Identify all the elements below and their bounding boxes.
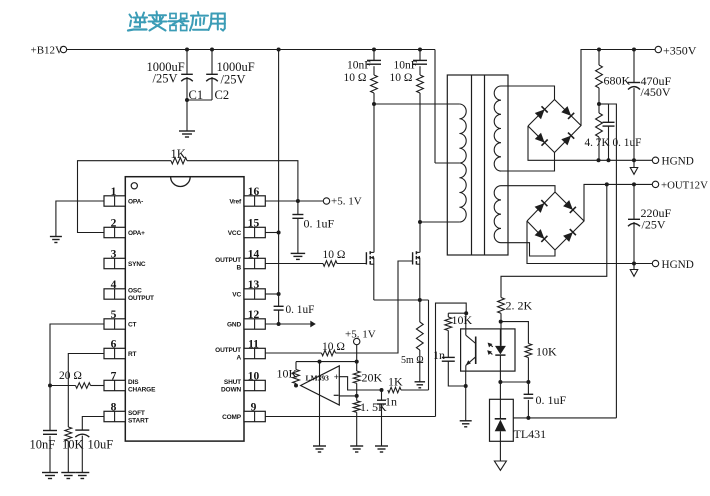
pin 3 SYNC	[104, 249, 146, 269]
svg-text:9: 9	[251, 402, 257, 414]
label 10K timing	[62, 438, 84, 452]
svg-text:10nF: 10nF	[394, 60, 418, 72]
pin 5 CT	[104, 309, 137, 329]
pin 12 GND	[227, 309, 265, 329]
capacitor 470uF/450V	[628, 50, 672, 161]
wire HV plus to rail	[581, 50, 655, 126]
ground Vref cap	[291, 253, 306, 259]
wire pin6 RT	[68, 354, 104, 428]
resistor R 10ohm snubber2	[390, 72, 424, 93]
wire VC cap to pin12	[278, 310, 280, 324]
wire primary bottom lead	[420, 221, 459, 223]
arrow HGND2 down	[630, 270, 638, 277]
wire 680K stem	[598, 50, 600, 66]
wire collector link	[436, 303, 467, 416]
svg-text:SOFT: SOFT	[128, 410, 145, 417]
svg-text:4. 7K: 4. 7K	[585, 137, 611, 149]
pin 2 OPA+	[104, 218, 145, 238]
wire LM393 supply drop	[319, 362, 321, 446]
svg-text:10K: 10K	[277, 367, 298, 381]
resistor R 10K opto filter	[445, 313, 473, 331]
pin 15 VCC	[228, 218, 266, 238]
pin 11 OUTPUT/A	[215, 339, 265, 362]
svg-text:1n: 1n	[385, 395, 397, 409]
junction Q2 source shunt	[418, 298, 422, 302]
wire LV plus to rail	[584, 184, 652, 221]
resistor R 4.7K	[585, 104, 611, 160]
wire 1.5K to gnd	[356, 412, 358, 446]
capacitor C2 1000uF/25V	[206, 60, 255, 102]
optocoupler U3	[461, 329, 515, 371]
svg-text:10: 10	[248, 371, 260, 383]
junction primary top tap	[372, 102, 376, 106]
wire CT-20ohm	[50, 385, 76, 387]
svg-text:HGND: HGND	[662, 259, 694, 271]
ground 10uF	[75, 473, 89, 479]
junction 680K top	[597, 48, 601, 52]
wire HV AC2	[501, 153, 555, 172]
wire plus input	[339, 377, 381, 390]
capacitor 10uF soft-start	[75, 430, 89, 437]
transistor Q2 MOSFET	[413, 251, 420, 264]
svg-text:20K: 20K	[362, 371, 383, 385]
wire pin15	[265, 232, 278, 234]
svg-text:15: 15	[248, 218, 260, 230]
svg-text:10K: 10K	[452, 313, 473, 327]
wire +B12V rail	[67, 49, 435, 51]
wire 1n to emitter node	[448, 361, 465, 386]
svg-text:1K: 1K	[171, 147, 186, 161]
junction 0.1uF bottom	[607, 158, 611, 162]
wire pin11 to 10ohm	[265, 352, 321, 354]
terminal +B12V	[31, 45, 67, 57]
wire 2.2K to LED	[500, 313, 502, 346]
junction emitter node	[464, 384, 468, 388]
capacitor 0.1uF VC-GND	[274, 304, 315, 316]
junction pullup-output	[294, 384, 298, 388]
wire snubber1 mid	[373, 66, 375, 75]
svg-text:11: 11	[248, 339, 259, 351]
arrow HGND down	[630, 168, 638, 175]
svg-text:/25V: /25V	[153, 72, 178, 86]
label 10nF	[30, 438, 56, 452]
resistor R 10K timing	[65, 427, 72, 441]
junction Vref node	[296, 199, 300, 203]
svg-text:OUTPUT: OUTPUT	[215, 257, 241, 264]
svg-text:OSC: OSC	[128, 287, 142, 294]
svg-text:/25V: /25V	[642, 218, 666, 232]
junction HV divider	[597, 102, 601, 106]
capacitor 1n opto filter	[433, 348, 455, 362]
wire HGND2 arrow stem	[633, 264, 635, 270]
pin 14 OUTPUT/B	[215, 249, 265, 272]
svg-text:7: 7	[111, 371, 117, 383]
svg-text:6: 6	[111, 339, 117, 351]
wire 10ohm to Q2 gate	[336, 261, 413, 353]
wire TL431 ref line	[513, 417, 616, 419]
svg-text:4: 4	[111, 279, 117, 291]
svg-text:0. 1uF: 0. 1uF	[286, 304, 315, 316]
svg-text:DOWN: DOWN	[221, 387, 241, 394]
IC U1 SG3525 body	[125, 177, 244, 441]
title text 逆变器应用 (inverter application)	[128, 12, 225, 31]
wire LV AC1	[501, 186, 555, 192]
wire source sense line	[374, 299, 429, 301]
op-amp U2 LM393	[301, 366, 340, 405]
wire pin5 CT	[50, 324, 104, 386]
wire HV minus to HGND	[528, 126, 652, 160]
wire opto collector up	[465, 313, 467, 329]
wire pin8 soft-start	[82, 417, 104, 431]
pin 16 Vref	[229, 186, 265, 206]
wire Q1 source down	[373, 265, 375, 301]
wire 10K to LED cathode	[527, 358, 529, 383]
pin 13 VC	[232, 279, 265, 299]
junction C1 gnd stem	[185, 98, 189, 102]
svg-text:CT: CT	[128, 322, 137, 329]
svg-text:LM393: LM393	[306, 374, 330, 383]
resistor R 20K divider	[353, 371, 382, 385]
ground LM393 supply	[313, 446, 326, 452]
wire snubber2 top	[419, 50, 421, 61]
wire HGND arrow stem	[633, 160, 635, 167]
resistor R 5mohm shunt	[401, 300, 424, 382]
svg-text:DIS: DIS	[128, 379, 139, 386]
wire pin14 to 10ohm	[265, 263, 323, 265]
arrow TL431 anode down	[494, 461, 506, 470]
resistor R 20ohm	[59, 370, 91, 388]
resistor R 1.5K divider	[353, 400, 387, 414]
pin 7 DIS/CHARGE	[104, 371, 156, 394]
svg-text:0. 1uF: 0. 1uF	[536, 393, 567, 407]
pin 1 OPA-	[104, 186, 143, 206]
svg-text:A: A	[236, 355, 241, 362]
junction collector node	[464, 311, 468, 315]
wire pin13	[265, 293, 278, 295]
capacitor 10nF timing	[43, 431, 57, 435]
wire LED cathode node	[499, 371, 501, 382]
wire HV sense to TL431 ref	[609, 104, 617, 418]
ground shunt	[415, 382, 426, 388]
svg-text:10 Ω: 10 Ω	[323, 249, 346, 261]
junction 220uF top	[632, 182, 636, 186]
pin 10 SHUT/DOWN	[221, 371, 265, 394]
resistor R 2.2K	[498, 298, 533, 314]
pin 4 OSC/OUTPUT	[104, 279, 154, 302]
wire 1K to Vref	[187, 161, 298, 201]
wire LV AC2	[501, 243, 555, 256]
terminal +5.1V Vref	[323, 196, 361, 208]
svg-text:VCC: VCC	[228, 230, 242, 237]
junction rail-snubber2	[418, 48, 422, 52]
ground divider	[350, 446, 363, 452]
wire Vref cap drop	[297, 201, 299, 215]
wire pin12 GND net	[265, 323, 311, 325]
capacitor 0.1uF HV divider	[603, 104, 642, 160]
capacitor 0.1uF TL431	[524, 382, 567, 418]
wire LED parallel link	[501, 322, 529, 344]
wire to ground C1C2	[186, 100, 188, 131]
junction rail-C1	[185, 48, 189, 52]
svg-text:OPA-: OPA-	[128, 199, 143, 206]
svg-text:C2: C2	[215, 88, 230, 102]
svg-text:5: 5	[111, 309, 117, 321]
wire LV minus to HGND2	[527, 221, 652, 264]
junction CT node	[48, 384, 52, 388]
svg-text:/450V: /450V	[641, 85, 671, 99]
transistor Q1 MOSFET	[366, 251, 373, 264]
svg-text:OUTPUT: OUTPUT	[128, 295, 154, 302]
svg-text:8: 8	[111, 402, 117, 414]
bridge rectifier D1-D4 (HV)	[528, 100, 581, 153]
svg-text:GND: GND	[227, 322, 241, 329]
capacitor 10nF snubber2	[394, 60, 428, 72]
svg-text:0. 1uF: 0. 1uF	[304, 217, 335, 231]
resistor R 1K sense	[388, 375, 403, 393]
junction ref-cap	[526, 416, 530, 420]
junction LED cathode	[498, 380, 502, 384]
resistor R 10K pullup	[277, 362, 300, 386]
wire Vplus branch	[296, 361, 357, 363]
junction LV plus feed	[605, 182, 609, 186]
wire snubber1 top	[373, 50, 375, 61]
wire 10nF to gnd	[49, 436, 51, 473]
wire 1K to sense drop	[401, 389, 429, 391]
wire CT cap drop	[49, 386, 51, 431]
svg-text:1K: 1K	[388, 375, 403, 389]
transformer secondary LV winding	[494, 186, 501, 243]
ground 1n comp	[375, 446, 388, 452]
svg-text:10 Ω: 10 Ω	[322, 341, 345, 353]
svg-text:CHARGE: CHARGE	[128, 387, 156, 394]
junction rail-VCC	[277, 48, 281, 52]
wire opto emitter down	[465, 371, 467, 421]
resistor R 680K	[596, 65, 631, 88]
capacitor 0.1uF Vref	[292, 215, 334, 231]
ground RT 10K	[61, 473, 75, 479]
pin 6 RT	[104, 339, 137, 359]
svg-text:+5. 1V: +5. 1V	[331, 196, 362, 208]
transformer primary winding	[459, 104, 466, 222]
svg-text:+B12V: +B12V	[31, 45, 64, 57]
junction 1n-1K node	[380, 388, 384, 392]
junction pin15 VCC	[277, 231, 281, 235]
svg-text:10 Ω: 10 Ω	[344, 72, 367, 84]
capacitor C1 1000uF/25V	[147, 60, 204, 102]
svg-text:COMP: COMP	[222, 414, 242, 421]
terminal HGND bottom	[652, 259, 694, 271]
pin 9 COMP	[222, 402, 265, 422]
svg-text:10 Ω: 10 Ω	[390, 72, 413, 84]
wire snubber1 to drain Q1	[373, 93, 375, 252]
wire 10uF to gnd	[81, 436, 83, 473]
wire cathode link	[500, 381, 528, 383]
wire pin2 feedback	[78, 161, 172, 233]
bridge rectifier D5-D8 (LV)	[527, 192, 584, 250]
wire collector to 10K filter	[448, 312, 466, 314]
wire minus input	[339, 395, 356, 397]
junction 0.1uF top	[526, 380, 530, 384]
svg-text:RT: RT	[128, 351, 137, 358]
svg-text:1n: 1n	[433, 348, 445, 362]
svg-text:3: 3	[111, 249, 117, 261]
svg-text:680K: 680K	[604, 74, 631, 88]
ground 10nF	[42, 473, 58, 479]
wire Vref cap gnd	[297, 218, 299, 253]
svg-text:Vref: Vref	[229, 199, 242, 206]
junction rail-C2	[210, 48, 214, 52]
wire pin1 to ground	[56, 201, 104, 237]
svg-text:10nF: 10nF	[30, 438, 56, 452]
wire 10K to 1n	[447, 331, 449, 358]
terminal +350V	[655, 44, 697, 58]
svg-text:+: +	[334, 372, 339, 382]
wire pin9 COMP line	[265, 416, 435, 418]
wire HV AC1	[501, 86, 555, 100]
resistor R 10K opto parallel	[525, 344, 557, 359]
label 10uF	[88, 438, 114, 452]
wire 5.1V stem	[356, 345, 358, 371]
wire C2 bottom	[211, 77, 213, 100]
transformer T1 core/box	[447, 75, 508, 255]
wire primary top lead	[374, 103, 459, 105]
wire 20K-1.5K	[356, 383, 358, 401]
wire 10ohm to Q1 gate	[337, 263, 366, 265]
junction rail-snubber1	[372, 48, 376, 52]
resistor R 1K feedback	[171, 147, 188, 164]
wire 20ohm-pin7	[91, 385, 105, 387]
wire 12V to 2.2K	[501, 184, 607, 297]
svg-text:14: 14	[248, 249, 260, 261]
svg-text:5m Ω: 5m Ω	[401, 355, 424, 366]
ground pin1	[50, 237, 62, 243]
terminal +5.1V aux	[345, 329, 376, 345]
svg-text:SYNC: SYNC	[128, 261, 146, 268]
junction 4.7K bottom	[597, 158, 601, 162]
svg-text:HGND: HGND	[662, 156, 694, 168]
svg-text:OPA+: OPA+	[128, 230, 145, 237]
wire pin16 Vref	[265, 200, 323, 202]
svg-text:10K: 10K	[62, 438, 84, 452]
svg-text:OUTPUT: OUTPUT	[215, 347, 241, 354]
resistor R 10ohm gate A	[322, 341, 345, 356]
svg-text:10K: 10K	[536, 345, 557, 359]
wire C1 top	[186, 50, 188, 75]
transformer secondary HV winding	[494, 86, 501, 171]
junction LED-10K link	[499, 320, 503, 324]
junction 470uF top	[632, 48, 636, 52]
arrow GND off-page	[310, 321, 316, 328]
capacitor 220uF/25V	[628, 184, 672, 263]
svg-text:START: START	[128, 418, 149, 425]
svg-text:B: B	[236, 265, 241, 272]
wire divider to cap	[599, 103, 609, 105]
svg-text:2: 2	[111, 218, 117, 230]
capacitor 1n comp	[377, 390, 397, 446]
wire 10K to gnd	[67, 441, 69, 473]
wire +B12V drop to center tap	[434, 50, 436, 164]
wire C1 bottom	[186, 77, 188, 100]
svg-text:2. 2K: 2. 2K	[506, 299, 533, 313]
wire sense drop to 1K	[428, 300, 430, 390]
wire primary center tap	[435, 162, 459, 164]
svg-text:10uF: 10uF	[88, 438, 114, 452]
svg-text:VC: VC	[232, 292, 241, 299]
wire C2 top	[211, 50, 213, 75]
svg-text:SHUT: SHUT	[224, 379, 241, 386]
svg-text:10nF: 10nF	[347, 60, 371, 72]
svg-text:12: 12	[248, 309, 260, 321]
svg-text:+OUT12V: +OUT12V	[661, 180, 708, 192]
svg-text:+350V: +350V	[663, 44, 697, 58]
junction Vplus branch	[355, 360, 359, 364]
junction divider mid	[355, 394, 359, 398]
resistor R 10ohm snubber1	[344, 72, 378, 93]
svg-text:20 Ω: 20 Ω	[59, 370, 82, 382]
terminal HGND top	[652, 156, 694, 168]
junction 220uF bottom	[632, 262, 636, 266]
pin 8 SOFT/START	[104, 402, 149, 425]
junction 470uF bottom	[632, 158, 636, 162]
resistor R 10ohm gate B	[323, 249, 346, 266]
junction LM393 supply	[318, 360, 322, 364]
svg-text:1: 1	[111, 186, 117, 198]
junction pin13 VC	[277, 292, 281, 296]
ground opto emitter	[460, 421, 472, 427]
junction pin12 GND	[277, 322, 281, 326]
ground C1C2	[179, 131, 195, 137]
svg-text:/25V: /25V	[221, 73, 246, 87]
wire C1-C2 join	[187, 99, 212, 101]
TL431 U4 shunt regulator	[490, 382, 547, 461]
svg-text:+5. 1V: +5. 1V	[345, 329, 376, 341]
svg-text:TL431: TL431	[514, 427, 547, 441]
svg-text:1. 5K: 1. 5K	[360, 400, 387, 414]
wire 680K to junction	[598, 88, 600, 104]
wire VCC drop from rail	[278, 50, 280, 307]
terminal +OUT12V	[652, 180, 708, 192]
wire snubber2 mid	[419, 66, 421, 75]
wire Q2 source down	[419, 265, 421, 301]
capacitor 10nF snubber1	[347, 60, 381, 72]
svg-text:16: 16	[248, 186, 260, 198]
svg-text:13: 13	[248, 279, 260, 291]
wire snubber2 to drain Q2	[419, 93, 421, 252]
junction primary bottom tap	[418, 220, 422, 224]
